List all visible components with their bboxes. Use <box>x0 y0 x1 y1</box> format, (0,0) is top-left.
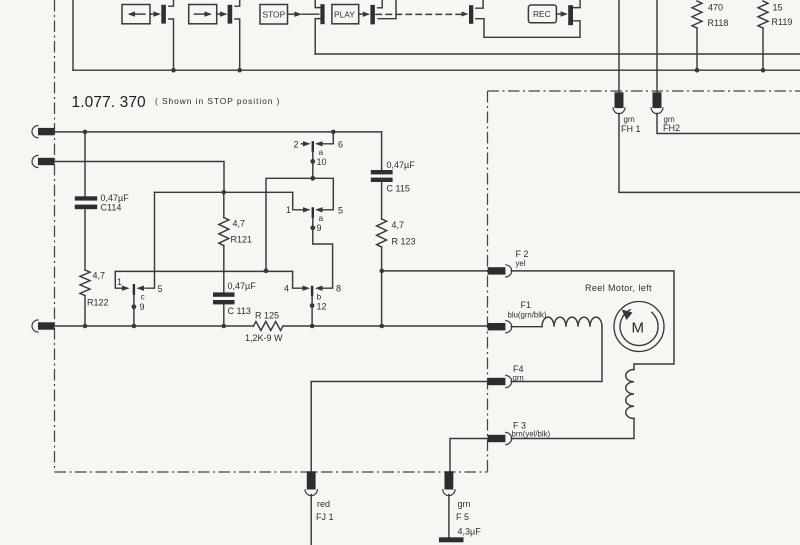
svg-text:FH 1: FH 1 <box>621 124 641 134</box>
label F4 grn <box>513 364 524 383</box>
resistor R118 <box>692 1 728 70</box>
connector F1 <box>488 321 512 333</box>
wire FH1 lead from top <box>618 0 620 92</box>
button STOP box <box>260 5 288 25</box>
svg-text:9: 9 <box>317 223 322 233</box>
actuator bar PLAY <box>370 5 375 25</box>
node junction R122/rail <box>83 324 88 329</box>
svg-text:12: 12 <box>317 302 327 312</box>
wire bus line2 (lower horizontal rail) <box>73 69 800 71</box>
wire F3 left to F5 corner <box>450 439 488 472</box>
module border right block top edge (dash-dot) <box>488 90 800 92</box>
svg-text:4: 4 <box>284 284 289 294</box>
wire from FH1 down and right <box>619 113 800 192</box>
wire coil to F4 <box>511 327 602 382</box>
wire top-frame-left vertical <box>72 0 74 70</box>
resistor R121 <box>219 192 252 292</box>
actuator bar S1 <box>161 5 166 24</box>
svg-text:R122: R122 <box>87 298 109 308</box>
label FH1 grn <box>621 115 641 134</box>
svg-text:4,3µF: 4,3µF <box>458 527 482 537</box>
module border 1.077.370 left edge (dash-dot) <box>54 0 56 472</box>
connector left input 2 <box>32 155 55 167</box>
svg-text:FJ 1: FJ 1 <box>316 512 334 522</box>
actuator arrow S2 <box>217 11 228 16</box>
connector F5 <box>443 471 455 495</box>
connector FH2 <box>651 92 663 113</box>
node junction rail1/contact6 <box>331 130 336 135</box>
svg-text:5: 5 <box>158 284 163 294</box>
wire rail2 <box>55 162 225 193</box>
svg-text:8: 8 <box>336 284 341 294</box>
svg-text:C114: C114 <box>101 203 122 213</box>
svg-text:( Shown in STOP position ): ( Shown in STOP position ) <box>155 96 280 106</box>
contact S2 top <box>235 0 240 6</box>
node junction R119/line2 <box>761 68 766 73</box>
node junction B <box>264 268 269 273</box>
resistor R123 <box>377 219 416 326</box>
svg-text:grn: grn <box>458 499 471 509</box>
label F2 yel <box>516 249 529 268</box>
wire bottom rail left part <box>55 325 254 327</box>
switch c: terminal 1 feed <box>115 271 129 291</box>
svg-text:b: b <box>317 292 322 302</box>
actuator bar S4 (interlock) <box>469 5 473 24</box>
svg-text:Reel Motor, left: Reel Motor, left <box>585 283 652 293</box>
svg-text:R119: R119 <box>772 17 793 27</box>
svg-text:1: 1 <box>117 277 122 287</box>
svg-text:470: 470 <box>708 3 723 13</box>
contact S1 bottom lead to rail <box>169 19 174 70</box>
wire vertical coil to F3 <box>511 419 634 439</box>
label F3 brn <box>512 421 551 439</box>
wire rail1 corner down to C115 <box>381 132 383 170</box>
connector left input 3 <box>32 320 55 332</box>
node junction rail1/C114 <box>83 130 88 135</box>
button S1 rewind box with left arrow <box>122 5 150 24</box>
contact STOP top <box>315 0 320 8</box>
node junction rail/switch-b <box>310 324 315 329</box>
svg-text:1.077. 370: 1.077. 370 <box>72 94 147 111</box>
connector F2 <box>488 265 512 277</box>
switch a upper: pole and terminal 10 <box>310 141 326 178</box>
inductor motor winding vertical <box>626 370 634 419</box>
svg-text:PLAY: PLAY <box>334 9 355 19</box>
module border right block left edge (dash-dot) <box>487 91 489 472</box>
contact STOP bottom lead to line1 <box>315 19 320 54</box>
wire F2 to motor right side <box>511 271 674 370</box>
switch b: terminal 4 feed <box>284 271 310 293</box>
switch c: terminal 5 feed from node wire <box>137 192 163 294</box>
button S2 fast-forward box with right arrow <box>189 5 217 24</box>
actuator arrow REC <box>556 11 567 16</box>
resistor R125 <box>245 311 283 344</box>
svg-text:F 2: F 2 <box>516 249 529 259</box>
svg-text:R118: R118 <box>708 18 729 28</box>
capacitor C115 <box>371 160 415 219</box>
svg-text:R121: R121 <box>231 235 253 245</box>
actuator arrow PLAY <box>359 12 370 17</box>
svg-text:9: 9 <box>140 302 145 312</box>
svg-text:F1: F1 <box>521 300 532 310</box>
svg-text:STOP: STOP <box>263 9 286 19</box>
svg-text:brn(yel/blk): brn(yel/blk) <box>512 429 551 438</box>
svg-text:0,47µF: 0,47µF <box>228 281 257 291</box>
svg-text:a: a <box>319 213 324 223</box>
contact S4 top <box>476 0 483 8</box>
label FJ1 red <box>316 499 334 522</box>
svg-text:2: 2 <box>294 140 299 150</box>
svg-text:yel: yel <box>516 259 526 268</box>
wire F4 left to FJ1 corner <box>311 382 487 472</box>
svg-text:grn: grn <box>513 374 524 383</box>
actuator arrow S1 <box>150 11 161 16</box>
capacitor C113 <box>213 281 256 326</box>
label F5 grn <box>456 499 481 537</box>
contact REC top <box>574 0 580 8</box>
svg-text:5: 5 <box>338 206 343 216</box>
node junction rail/R123 <box>380 324 385 329</box>
resistor R122 <box>80 270 109 326</box>
svg-text:4,7: 4,7 <box>392 220 405 230</box>
contact S1 top <box>169 0 174 6</box>
wire node B horizontal <box>115 270 292 272</box>
capacitor C114 <box>75 132 129 270</box>
svg-text:REC: REC <box>533 9 551 19</box>
switch a lower: terminal 1 feed <box>286 192 311 215</box>
connector F4 <box>488 375 512 387</box>
svg-text:FH2: FH2 <box>663 123 680 133</box>
svg-text:10: 10 <box>317 157 327 167</box>
wire pole-a2 to contact 8 <box>313 244 333 291</box>
node junction S2/rail <box>237 68 242 73</box>
wire bottom rail right part <box>283 325 488 327</box>
connector FJ1 <box>305 471 317 495</box>
svg-text:0,47µF: 0,47µF <box>387 160 416 170</box>
switch a upper: terminal 2 <box>294 140 311 150</box>
svg-text:4,7: 4,7 <box>93 271 106 281</box>
contact PLAY top <box>378 0 383 8</box>
svg-text:15: 15 <box>773 3 783 13</box>
svg-text:c: c <box>141 292 145 302</box>
contact S2 bottom lead to rail <box>235 19 240 70</box>
wire F2 net <box>382 270 488 272</box>
wire pole-a right branch to contact 5 <box>313 178 334 212</box>
inductor motor winding horizontal <box>542 317 602 327</box>
node junction R118/line2 <box>695 68 700 73</box>
wire F5 down <box>448 495 450 538</box>
wire from FH2 down and right <box>657 113 800 133</box>
wire FH2 lead from top <box>656 0 658 92</box>
node junction rail/switch-c <box>132 324 137 329</box>
svg-text:1: 1 <box>286 205 291 215</box>
node junction C113/rail <box>222 324 227 329</box>
connector FH1 <box>613 92 625 113</box>
module border 1.077.370 bottom edge (dash-dot) <box>55 471 488 473</box>
button PLAY box <box>332 5 359 24</box>
svg-text:R 125: R 125 <box>255 311 279 321</box>
wire pole-a left branch down to node B <box>266 178 313 270</box>
svg-text:4,7: 4,7 <box>233 219 246 229</box>
switch b: pole and terminal 12 <box>310 286 327 326</box>
actuator bar STOP <box>320 4 324 24</box>
contact S4 bottom loop to REC contact <box>476 19 580 38</box>
svg-text:F 5: F 5 <box>456 512 469 522</box>
motor M1 circle <box>614 302 664 352</box>
actuator arrow STOP <box>288 12 319 17</box>
actuator bar REC <box>568 5 573 25</box>
label F1 blu <box>508 300 547 320</box>
svg-text:C 113: C 113 <box>228 306 251 316</box>
button REC box <box>528 5 556 23</box>
svg-text:0,47µF: 0,47µF <box>101 193 130 203</box>
connector left input 1 <box>32 126 55 138</box>
svg-text:red: red <box>317 499 330 509</box>
capacitor C-F5 plate <box>439 537 464 542</box>
wire dashed interlock PLAY to REC bar <box>376 13 461 15</box>
node junction R123/F2wire <box>380 269 385 274</box>
wire node-192 horizontal <box>155 191 293 193</box>
switch a lower: pole and terminal 9 <box>310 207 323 244</box>
svg-text:6: 6 <box>338 140 343 150</box>
switch c: pole and terminal 9 <box>132 284 145 326</box>
svg-text:blu(grn/blk): blu(grn/blk) <box>508 311 547 320</box>
svg-text:F4: F4 <box>513 364 524 374</box>
svg-text:grn: grn <box>624 115 635 124</box>
svg-text:M: M <box>632 320 645 337</box>
node junction R121 top <box>222 190 227 195</box>
node junction pole-a split <box>310 176 315 181</box>
actuator bar S2 <box>228 5 233 24</box>
svg-text:a: a <box>319 147 324 157</box>
svg-text:R 123: R 123 <box>392 237 416 247</box>
switch a upper: terminal 6 from rail1 <box>315 132 343 150</box>
wire rail1 top <box>55 131 382 133</box>
connector F3 <box>488 432 512 444</box>
svg-text:1,2K-9 W: 1,2K-9 W <box>245 333 283 343</box>
label FH2 grn <box>663 115 680 133</box>
wire bus line1 (upper horizontal rail from STOP contact) <box>315 53 800 55</box>
contact PLAY bottom lead <box>378 0 396 19</box>
svg-text:C 115: C 115 <box>387 184 410 194</box>
wire F1 to coil <box>511 326 542 328</box>
resistor R119 <box>758 1 792 70</box>
node junction S1/rail <box>171 68 176 73</box>
wire FJ1 down <box>310 495 312 545</box>
